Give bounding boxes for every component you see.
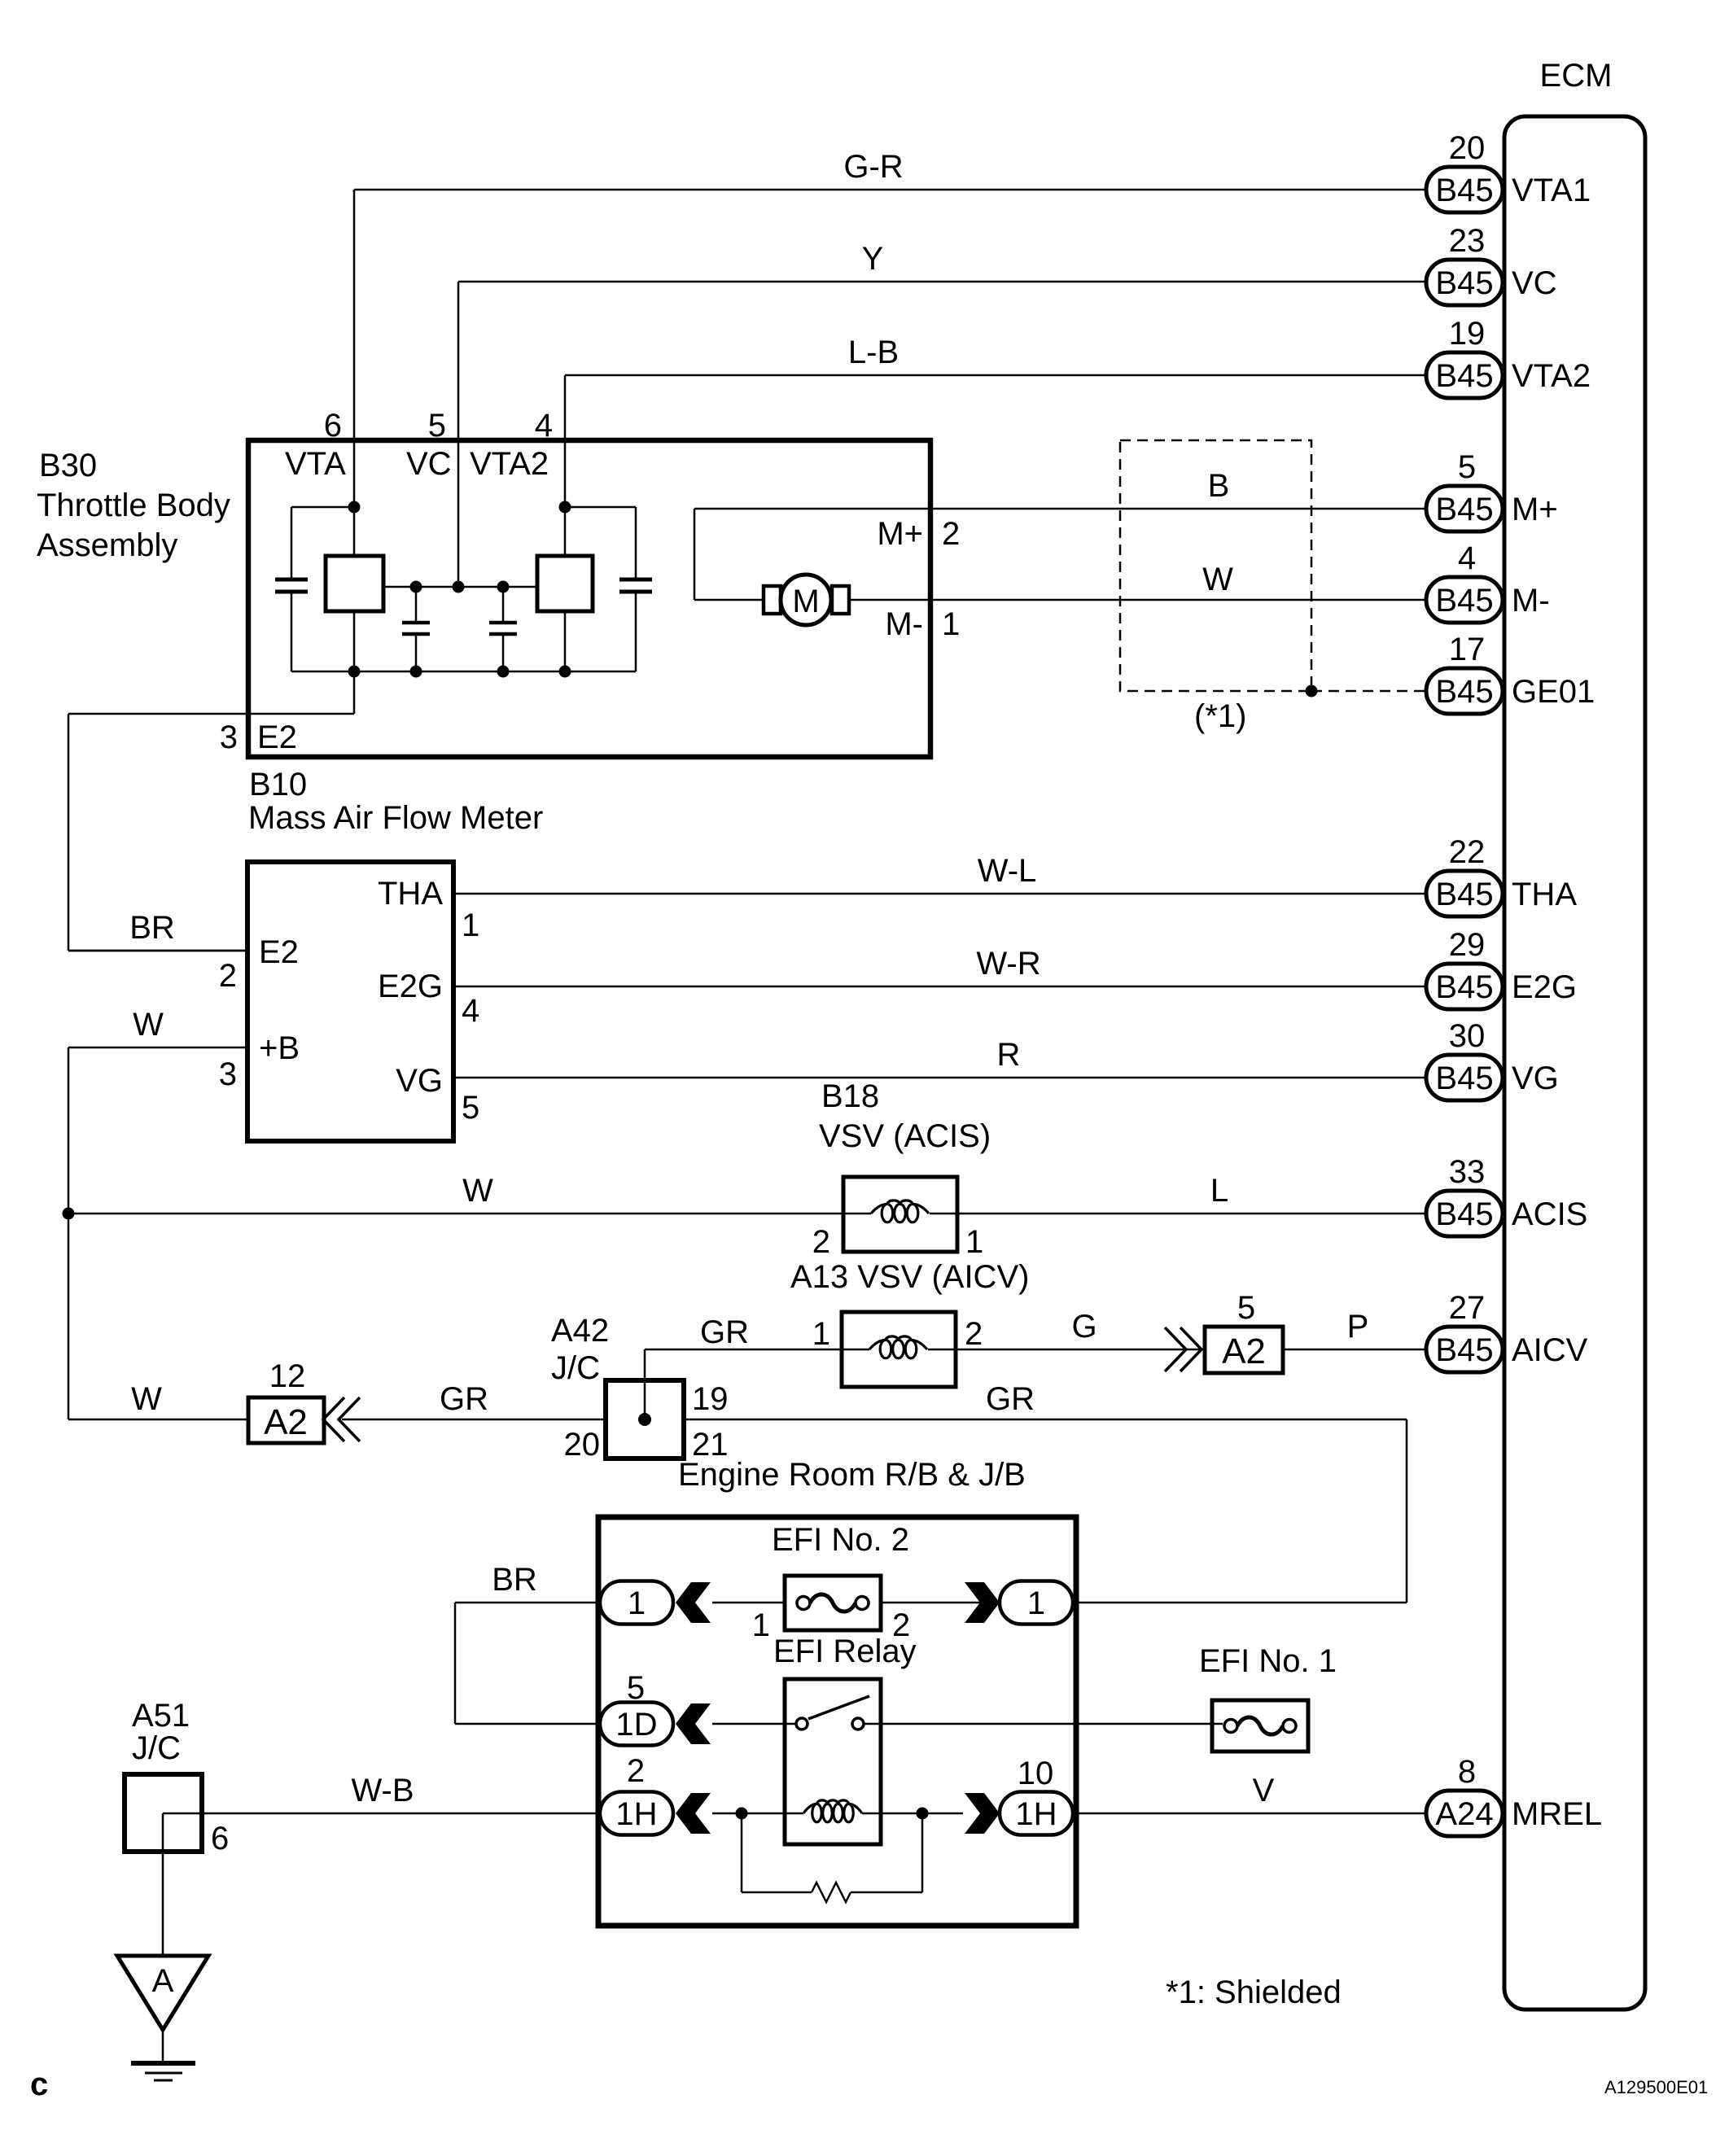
svg-text:EFI No. 1: EFI No. 1 <box>1199 1643 1337 1679</box>
svg-text:VC: VC <box>406 446 452 482</box>
connector arrows into A2-5 <box>1165 1327 1186 1371</box>
wire shield drain to GE01 (dashed) <box>1311 690 1426 693</box>
svg-text:23: 23 <box>1449 223 1486 259</box>
fuse EFI No. 1 <box>1212 1700 1308 1751</box>
svg-text:2: 2 <box>965 1316 983 1352</box>
svg-text:1: 1 <box>942 606 960 642</box>
wire motor M- to ECM M- <box>849 599 1426 601</box>
svg-text:B45: B45 <box>1435 877 1493 912</box>
motor M throttle actuator <box>764 575 849 625</box>
svg-text:5: 5 <box>462 1090 479 1126</box>
node shield to GE01 <box>1306 685 1318 698</box>
svg-text:27: 27 <box>1449 1290 1486 1326</box>
svg-text:10: 10 <box>1018 1756 1054 1791</box>
wire P to ECM AICV <box>1283 1349 1426 1351</box>
svg-text:VTA: VTA <box>285 446 346 482</box>
svg-text:E2G: E2G <box>378 969 443 1004</box>
wire VTA2 inside B30 <box>564 440 567 556</box>
svg-text:W: W <box>133 1007 164 1043</box>
node relay coil left <box>736 1808 748 1820</box>
wire A51 to ground <box>162 1813 164 1956</box>
svg-text:A51: A51 <box>132 1698 190 1734</box>
capacitor C1 (left) <box>291 507 293 579</box>
wire Y (VC to VC) <box>458 281 1426 283</box>
svg-text:B: B <box>1208 468 1230 504</box>
node bus capA <box>410 666 422 678</box>
wire GR from A42 to EFI relay output <box>684 1419 1407 1421</box>
svg-text:A42: A42 <box>551 1313 609 1349</box>
node W bus junction <box>63 1208 75 1220</box>
svg-text:M+: M+ <box>877 516 923 552</box>
wire V to ECM MREL <box>1073 1813 1426 1815</box>
wire W-B from A51 to 1H <box>163 1813 600 1815</box>
svg-text:W: W <box>1202 562 1233 597</box>
svg-text:A129500E01: A129500E01 <box>1604 2077 1708 2097</box>
junction connector A42 J/C box <box>606 1380 684 1458</box>
svg-text:THA: THA <box>378 876 443 912</box>
wire W +B to B10 <box>68 1047 247 1049</box>
svg-text:5: 5 <box>428 408 446 444</box>
ECM pin 33 B45 ACIS <box>1426 1154 1587 1236</box>
Engine Room R/B and J/B box <box>598 1517 1076 1926</box>
fuse EFI No. 2 <box>785 1576 881 1630</box>
wire GR from A42 J/C to VSV AICV pin 1 <box>644 1349 646 1419</box>
svg-text:W-B: W-B <box>351 1773 414 1808</box>
shield dashed box (*1) <box>1120 440 1311 691</box>
svg-text:ECM: ECM <box>1540 58 1613 94</box>
svg-text:19: 19 <box>692 1381 729 1417</box>
svg-text:B30: B30 <box>39 448 97 483</box>
svg-text:EFI No. 2: EFI No. 2 <box>772 1522 909 1558</box>
svg-text:B45: B45 <box>1435 1196 1493 1232</box>
wire W to connector A2-12 <box>68 1419 248 1421</box>
svg-text:V: V <box>1253 1773 1275 1808</box>
svg-text:+B: +B <box>259 1030 300 1066</box>
svg-text:1D: 1D <box>615 1707 657 1743</box>
wire L-B (VTA2 to VTA2) <box>565 374 1426 377</box>
svg-text:P: P <box>1347 1309 1369 1345</box>
connector oval 1 (right) <box>1000 1581 1073 1625</box>
node relay coil right <box>917 1808 929 1820</box>
svg-text:1: 1 <box>628 1585 646 1621</box>
svg-text:4: 4 <box>462 993 479 1029</box>
sensor element 2 (throttle position sensor) <box>537 556 593 611</box>
wire relay switch to EFI No.1 fuse <box>864 1723 1223 1725</box>
capacitor C2 (mid-left) <box>415 587 418 623</box>
ECM pin 23 B45 VC <box>1426 223 1557 305</box>
svg-text:GR: GR <box>700 1314 749 1350</box>
svg-text:12: 12 <box>269 1358 306 1394</box>
wire E2G (W-R) to ECM E2G <box>453 986 1426 988</box>
wire GR from A2-12 to A42 J/C <box>342 1419 606 1421</box>
VSV A13 solenoid valve box (AICV) <box>842 1312 956 1387</box>
svg-text:THA: THA <box>1512 877 1577 912</box>
EFI relay box <box>785 1679 881 1844</box>
wire mid line between elements <box>383 586 537 588</box>
svg-text:5: 5 <box>1458 449 1476 485</box>
svg-text:G: G <box>1071 1309 1096 1345</box>
ground triangle A <box>117 1956 208 2030</box>
svg-text:W: W <box>131 1381 162 1417</box>
wire to EFI No.2 fuse <box>712 1602 785 1604</box>
wire VC inside B30 <box>457 440 460 587</box>
ECM box <box>1504 116 1645 2009</box>
ECM pin 30 B45 VG <box>1426 1018 1559 1100</box>
wire top-left branch <box>291 506 354 509</box>
svg-text:1: 1 <box>812 1316 830 1352</box>
svg-text:2: 2 <box>812 1224 830 1260</box>
node mid cap B <box>497 581 510 593</box>
wire relay coil to 1H output <box>862 1813 963 1815</box>
VSV B18 solenoid valve box (ACIS) <box>843 1177 957 1252</box>
wire 1D to relay switch <box>712 1723 796 1725</box>
svg-text:MREL: MREL <box>1512 1796 1602 1832</box>
svg-text:20: 20 <box>1449 130 1486 166</box>
node bus capB <box>497 666 510 678</box>
svg-text:(*1): (*1) <box>1194 698 1246 734</box>
node bus element2 <box>559 666 571 678</box>
svg-text:3: 3 <box>220 719 238 755</box>
relay switch contact right <box>852 1718 864 1730</box>
svg-text:2: 2 <box>219 958 237 994</box>
svg-text:B10: B10 <box>249 767 307 802</box>
svg-text:VC: VC <box>1512 265 1557 301</box>
wire L to ECM ACIS <box>930 1213 1426 1215</box>
solenoid coil B18 <box>871 1200 929 1214</box>
svg-text:ACIS: ACIS <box>1512 1196 1587 1232</box>
svg-text:B45: B45 <box>1435 358 1493 394</box>
svg-text:A24: A24 <box>1435 1796 1493 1832</box>
svg-text:c: c <box>30 2066 48 2102</box>
wire fuse to output oval <box>881 1602 1000 1604</box>
svg-text:E2: E2 <box>259 934 299 970</box>
svg-text:BR: BR <box>129 910 175 946</box>
svg-text:J/C: J/C <box>551 1350 600 1386</box>
svg-text:B45: B45 <box>1435 492 1493 527</box>
svg-text:1: 1 <box>462 907 479 943</box>
ECM pin 27 B45 AICV <box>1426 1290 1588 1372</box>
connector arrow at 1H <box>676 1793 711 1834</box>
wire VG (R) to ECM VG <box>453 1077 1426 1079</box>
wire bottom bus <box>291 671 636 673</box>
svg-text:VSV (ACIS): VSV (ACIS) <box>819 1118 991 1154</box>
svg-text:Y: Y <box>862 241 884 277</box>
svg-text:8: 8 <box>1458 1754 1476 1790</box>
svg-text:VG: VG <box>1512 1061 1559 1096</box>
relay switch contact left <box>796 1718 808 1730</box>
resistor in relay bypass <box>741 1813 743 1892</box>
svg-text:VG: VG <box>396 1063 443 1099</box>
wire E2 exit from B30 <box>353 671 356 714</box>
svg-text:4: 4 <box>1458 540 1476 576</box>
ECM pin 20 B45 VTA1 <box>1426 130 1591 212</box>
connector arrow at right 1H <box>965 1793 1000 1834</box>
svg-text:5: 5 <box>1237 1290 1255 1326</box>
svg-text:6: 6 <box>324 408 342 444</box>
svg-text:1: 1 <box>965 1224 983 1260</box>
ECM pin 19 B45 VTA2 <box>1426 316 1591 398</box>
junction connector A51 J/C box <box>125 1774 202 1852</box>
wire G-R (VTA to VTA1) <box>354 189 1426 191</box>
connector arrows out of A2-12 <box>323 1397 344 1441</box>
svg-text:20: 20 <box>564 1427 601 1463</box>
svg-text:3: 3 <box>219 1056 237 1092</box>
sensor element 1 (throttle position sensor) <box>326 556 383 611</box>
svg-text:BR: BR <box>492 1562 537 1598</box>
connector oval 1 (left) <box>600 1581 673 1625</box>
wire oval 1 to GR vertical <box>1073 1602 1407 1604</box>
svg-text:GR: GR <box>986 1381 1035 1417</box>
wire W to VSV ACIS pin 2 <box>68 1213 871 1215</box>
wire THA (W-L) to ECM THA <box>453 893 1426 895</box>
relay switch blade <box>808 1696 869 1719</box>
svg-text:*1: Shielded: *1: Shielded <box>1166 1975 1342 2010</box>
svg-text:Assembly: Assembly <box>37 527 177 563</box>
ECM pin 8 A24 MREL <box>1426 1754 1602 1836</box>
wire element2 bottom <box>564 611 567 671</box>
svg-text:E2: E2 <box>257 719 297 755</box>
node VC junction <box>453 581 465 593</box>
svg-text:G-R: G-R <box>843 149 903 185</box>
svg-text:VTA1: VTA1 <box>1512 173 1591 208</box>
svg-text:R: R <box>997 1037 1021 1073</box>
svg-text:L: L <box>1210 1173 1228 1209</box>
svg-text:1H: 1H <box>1015 1796 1057 1832</box>
svg-text:A2: A2 <box>1222 1332 1266 1371</box>
capacitor C4 (right) <box>635 507 637 579</box>
B10 mass air flow meter box <box>247 862 453 1141</box>
svg-text:1: 1 <box>1027 1585 1045 1621</box>
svg-text:W-L: W-L <box>978 853 1037 889</box>
svg-text:30: 30 <box>1449 1018 1486 1054</box>
svg-text:A2: A2 <box>264 1402 308 1442</box>
svg-text:GR: GR <box>440 1381 488 1417</box>
capacitor C3 (mid-right) <box>502 587 505 623</box>
svg-text:17: 17 <box>1449 632 1486 667</box>
svg-text:19: 19 <box>1449 316 1486 352</box>
wire 1H to relay coil <box>712 1813 803 1815</box>
svg-text:2: 2 <box>942 516 960 552</box>
svg-text:L-B: L-B <box>848 335 899 370</box>
svg-text:W: W <box>462 1173 493 1209</box>
svg-text:Throttle Body: Throttle Body <box>37 488 230 523</box>
svg-text:4: 4 <box>535 408 553 444</box>
wire BR loop from fuse to 1D <box>455 1602 600 1604</box>
svg-text:B18: B18 <box>821 1078 879 1114</box>
wire VTA inside B30 <box>353 440 356 556</box>
svg-text:Engine Room R/B & J/B: Engine Room R/B & J/B <box>678 1457 1026 1493</box>
svg-text:6: 6 <box>211 1821 229 1856</box>
wire W vertical bus <box>68 1047 70 1419</box>
svg-text:EFI Relay: EFI Relay <box>773 1633 917 1669</box>
connector arrow at 1D <box>676 1703 711 1744</box>
svg-text:B45: B45 <box>1435 1061 1493 1096</box>
svg-text:22: 22 <box>1449 834 1486 870</box>
svg-text:33: 33 <box>1449 1154 1486 1190</box>
svg-text:M-: M- <box>1512 583 1550 619</box>
svg-text:M+: M+ <box>1512 492 1558 527</box>
wire BR E2 to B10 <box>68 950 247 952</box>
svg-text:B45: B45 <box>1435 173 1493 208</box>
ground symbol <box>162 2030 164 2062</box>
ECM pin 17 B45 GE01 <box>1426 632 1595 714</box>
node VTA2 junction <box>559 501 571 514</box>
wire top-right branch <box>565 506 636 509</box>
ECM pin 5 B45 M+ <box>1426 449 1558 531</box>
svg-text:GE01: GE01 <box>1512 674 1595 710</box>
svg-text:M-: M- <box>885 606 923 642</box>
wire G to connector A2-5 <box>928 1349 1205 1351</box>
wire motor M+ branch <box>694 599 764 601</box>
svg-text:1: 1 <box>752 1607 770 1643</box>
node VTA junction <box>348 501 361 514</box>
svg-text:A13 VSV (AICV): A13 VSV (AICV) <box>790 1259 1029 1295</box>
ECM pin 22 B45 THA <box>1426 834 1577 916</box>
svg-text:Mass Air Flow Meter: Mass Air Flow Meter <box>248 800 543 836</box>
ECM pin 4 B45 M- <box>1426 540 1550 623</box>
svg-text:B45: B45 <box>1435 969 1493 1005</box>
connector arrow at right oval 1 <box>965 1582 1000 1623</box>
svg-text:2: 2 <box>627 1753 645 1789</box>
svg-text:29: 29 <box>1449 927 1486 963</box>
svg-text:VTA2: VTA2 <box>1512 358 1591 394</box>
svg-text:E2G: E2G <box>1512 969 1577 1005</box>
svg-text:B45: B45 <box>1435 265 1493 301</box>
relay coil <box>803 1800 862 1813</box>
solenoid coil A13 <box>869 1336 927 1349</box>
svg-text:A: A <box>152 1963 174 1999</box>
svg-text:J/C: J/C <box>132 1730 181 1766</box>
ECM pin 29 B45 E2G <box>1426 927 1577 1009</box>
B30 throttle body assembly box <box>248 440 930 757</box>
connector arrow at oval 1 <box>676 1582 711 1623</box>
node bus E2 <box>348 666 361 678</box>
svg-text:AICV: AICV <box>1512 1332 1588 1368</box>
wire element1 bottom <box>353 611 356 671</box>
node mid cap A <box>410 581 422 593</box>
svg-text:B45: B45 <box>1435 674 1493 710</box>
svg-text:VTA2: VTA2 <box>470 446 549 482</box>
svg-text:1H: 1H <box>615 1796 657 1832</box>
node A42 junction <box>638 1413 651 1426</box>
svg-text:W-R: W-R <box>976 946 1040 982</box>
svg-text:M: M <box>792 584 819 619</box>
svg-text:B45: B45 <box>1435 1332 1493 1368</box>
svg-text:B45: B45 <box>1435 583 1493 619</box>
